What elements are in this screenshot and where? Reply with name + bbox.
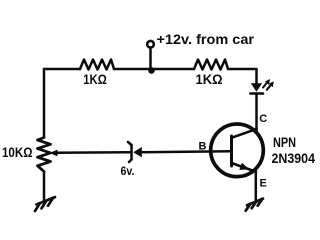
svg-text:B: B — [199, 140, 207, 152]
node junction dot — [148, 67, 155, 74]
ground left — [35, 197, 55, 211]
transistor Q1 circle — [211, 124, 264, 177]
transistor Q1 collector line — [232, 129, 257, 138]
svg-text:E: E — [260, 177, 267, 189]
ground right — [246, 199, 263, 211]
svg-text:2N3904: 2N3904 — [272, 150, 316, 166]
terminal +12V — [147, 41, 154, 48]
LED light arrow 2 — [267, 81, 274, 90]
zener diode D1 anode triangle — [133, 147, 142, 157]
LED light arrow 1 — [263, 79, 270, 88]
resistor R2 1K — [194, 60, 228, 70]
wire top-left segment — [44, 68, 80, 71]
potentiometer R3 10K zigzag — [38, 138, 51, 172]
wire stub from terminal — [149, 48, 152, 70]
svg-text:1KΩ: 1KΩ — [83, 71, 107, 87]
wire left vertical — [43, 69, 46, 138]
wire collector vertical — [255, 95, 258, 132]
zener diode D1 cathode bar — [128, 142, 132, 162]
svg-text:+12v. from car: +12v. from car — [157, 31, 255, 47]
LED D2 cathode bar — [251, 92, 264, 95]
potentiometer wiper arrow — [50, 150, 58, 157]
wire pot bottom to ground — [43, 172, 46, 203]
svg-text:C: C — [259, 113, 267, 125]
svg-text:10KΩ: 10KΩ — [2, 144, 33, 160]
LED D2 triangle — [251, 83, 262, 92]
resistor R1 1K — [80, 60, 114, 70]
wire wiper to zener — [56, 151, 130, 154]
transistor Q1 emitter line — [232, 163, 257, 172]
wire zener to base — [142, 150, 232, 153]
transistor Q1 emitter arrowhead — [239, 163, 249, 170]
svg-text:1KΩ: 1KΩ — [196, 71, 223, 87]
transistor Q1 base bar — [230, 136, 233, 166]
svg-text:6v.: 6v. — [121, 164, 135, 178]
wire top-middle segment — [114, 68, 194, 71]
wire emitter vertical — [255, 172, 258, 202]
svg-text:NPN: NPN — [273, 135, 296, 150]
wire top-right segment to corner — [228, 69, 257, 84]
